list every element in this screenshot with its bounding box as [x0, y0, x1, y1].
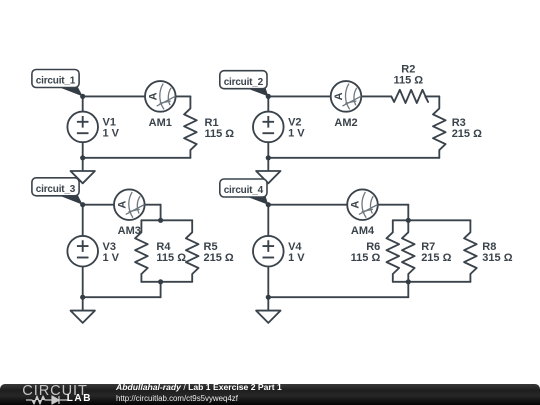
- junction dot node4: [266, 202, 271, 207]
- wire node3 to AM3: [83, 204, 114, 206]
- svg-text:315 Ω: 315 Ω: [482, 252, 512, 264]
- junction dot node2: [266, 94, 271, 99]
- wire junction4 to ground: [267, 297, 269, 310]
- junction dot top bus 4: [406, 218, 411, 223]
- node flag circuit_1: [32, 70, 83, 97]
- junction dot bottom3: [80, 295, 85, 300]
- ground G4: [256, 311, 280, 323]
- wire bottom bus 3: [141, 281, 192, 283]
- voltage source V4: [253, 236, 284, 267]
- svg-text:115 Ω: 115 Ω: [156, 252, 186, 264]
- logo resistor-diode squiggle: [26, 396, 68, 404]
- junction dot top bus 3: [158, 218, 163, 223]
- resistor R7: [402, 220, 415, 281]
- svg-text:A: A: [333, 92, 345, 100]
- wire down to top bus 4: [407, 205, 409, 221]
- logo word LAB: [67, 394, 92, 404]
- svg-text:A: A: [147, 92, 159, 100]
- svg-text:AM4: AM4: [351, 225, 375, 237]
- footer title line: [116, 383, 282, 392]
- svg-text:215 Ω: 215 Ω: [452, 128, 482, 140]
- wire R3 bottom to junction 2: [268, 157, 439, 159]
- junction dot bottom2: [266, 155, 271, 160]
- wire AM2 to R2: [361, 95, 391, 97]
- svg-text:circuit_1: circuit_1: [36, 76, 76, 87]
- wire AM1 to R1: [176, 95, 191, 97]
- wire top bus 3: [141, 219, 192, 221]
- wire junction2 to ground: [267, 158, 269, 171]
- wire node4 to V4 top: [267, 205, 269, 236]
- ammeter AM3: [114, 189, 145, 220]
- ammeter AM2: [331, 81, 362, 112]
- node flag circuit_2: [220, 71, 268, 97]
- wire bottom 3: [83, 296, 161, 298]
- resistor R2: [391, 90, 428, 103]
- wire junction3 to ground: [82, 297, 84, 310]
- wire V3 bottom to junction: [82, 267, 84, 298]
- voltage source V2: [253, 112, 284, 143]
- wire V1 bottom to junction: [82, 142, 84, 158]
- resistor R6: [387, 220, 400, 281]
- wire junction1 to ground: [82, 158, 84, 171]
- ammeter AM4: [347, 189, 378, 220]
- junction dot bottom bus 4: [406, 279, 411, 284]
- wire node1 to AM1: [83, 95, 145, 97]
- wire node2 to AM2: [268, 95, 330, 97]
- svg-text:115 Ω: 115 Ω: [205, 128, 235, 140]
- junction dot bottom bus 3: [158, 279, 163, 284]
- junction dot bottom1: [80, 155, 85, 160]
- resistor R1: [184, 96, 197, 157]
- footer bar: [0, 384, 540, 405]
- junction dot node3: [80, 202, 85, 207]
- ground G1: [71, 171, 95, 183]
- wire node1 to V1 top: [82, 96, 84, 111]
- ammeter AM1: [145, 81, 176, 112]
- svg-text:A: A: [116, 201, 128, 209]
- wire AM3 right: [145, 204, 161, 206]
- svg-text:1 V: 1 V: [103, 128, 120, 140]
- svg-text:115 Ω: 115 Ω: [393, 75, 423, 87]
- voltage source V3: [67, 236, 98, 267]
- wire node3 to V3 top: [82, 205, 84, 236]
- svg-text:215 Ω: 215 Ω: [421, 252, 451, 264]
- footer url line: [116, 395, 238, 403]
- wire top bus 4: [393, 219, 471, 221]
- voltage source V1: [67, 112, 98, 143]
- svg-text:1 V: 1 V: [103, 252, 120, 264]
- wire node4 to AM4: [268, 204, 347, 206]
- svg-text:circuit_4: circuit_4: [224, 185, 264, 196]
- resistor R8: [464, 220, 477, 281]
- node flag circuit_4: [220, 179, 268, 205]
- svg-text:1 V: 1 V: [288, 128, 305, 140]
- wire R2 to corner: [425, 95, 439, 97]
- resistor R3: [433, 96, 446, 157]
- ground G2: [256, 171, 280, 183]
- svg-text:circuit_3: circuit_3: [36, 184, 76, 195]
- svg-text:1 V: 1 V: [288, 252, 305, 264]
- wire bottom 4: [268, 296, 408, 298]
- svg-text:circuit_2: circuit_2: [224, 77, 264, 88]
- ground G3: [71, 311, 95, 323]
- wire bus4 down: [407, 282, 409, 297]
- junction dot bottom4: [266, 295, 271, 300]
- node flag circuit_3: [32, 178, 83, 205]
- wire V2 bottom to junction: [267, 142, 269, 158]
- wire bus3 down: [160, 282, 162, 297]
- wire down to top bus 3: [160, 205, 162, 221]
- wire R1 bottom to junction 1: [83, 157, 191, 159]
- wire node2 to V2 top: [267, 96, 269, 111]
- svg-text:AM3: AM3: [118, 225, 141, 237]
- wire bottom bus 4: [393, 281, 471, 283]
- logo word CIRCUIT: [22, 384, 87, 399]
- svg-text:R2: R2: [401, 63, 415, 75]
- wire V4 bottom to junction: [267, 267, 269, 298]
- svg-text:AM1: AM1: [149, 117, 172, 129]
- svg-text:215 Ω: 215 Ω: [204, 252, 234, 264]
- junction dot node1: [80, 94, 85, 99]
- resistor R5: [186, 220, 199, 281]
- svg-text:A: A: [350, 201, 362, 209]
- svg-text:AM2: AM2: [334, 117, 357, 129]
- svg-text:115 Ω: 115 Ω: [351, 252, 381, 264]
- wire AM4 right: [378, 204, 409, 206]
- resistor R4: [135, 220, 148, 281]
